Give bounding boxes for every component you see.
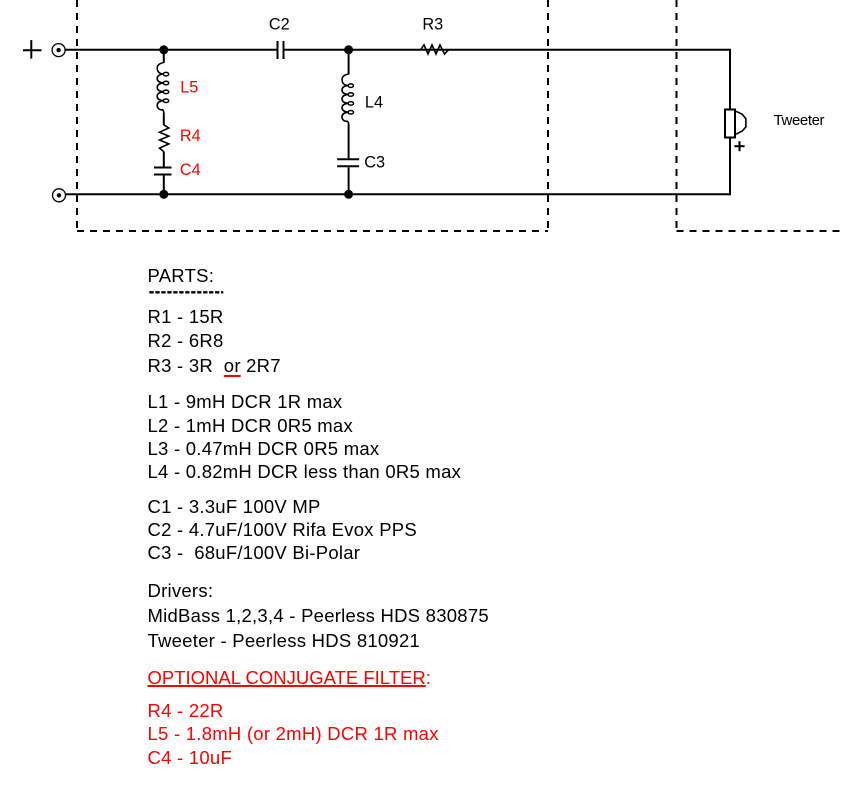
svg-text:Tweeter: Tweeter [774, 112, 825, 129]
svg-text:L5: L5 [180, 78, 198, 96]
svg-text:C3: C3 [364, 153, 385, 171]
svg-text:R3: R3 [422, 16, 443, 34]
svg-text:L4: L4 [365, 93, 383, 111]
svg-text:R4: R4 [180, 127, 201, 145]
svg-text:C4: C4 [180, 161, 201, 179]
svg-text:C2: C2 [269, 16, 290, 34]
